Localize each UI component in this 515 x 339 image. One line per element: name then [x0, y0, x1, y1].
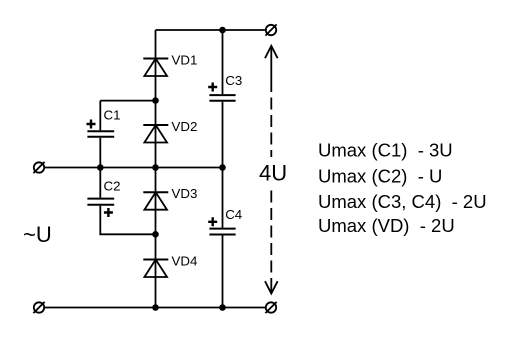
svg-text:VD4: VD4 [172, 253, 198, 268]
svg-text:Umax (C1) - 3U: Umax (C1) - 3U [318, 139, 453, 160]
svg-text:Umax (VD) - 2U: Umax (VD) - 2U [318, 215, 455, 236]
svg-text:C1: C1 [104, 108, 121, 123]
svg-text:4U: 4U [259, 161, 287, 186]
svg-text:C4: C4 [225, 207, 242, 222]
svg-text:C3: C3 [225, 73, 242, 88]
svg-text:Umax (C2) - U: Umax (C2) - U [318, 165, 442, 186]
svg-text:C2: C2 [104, 179, 121, 194]
svg-text:VD3: VD3 [172, 186, 198, 201]
svg-text:~U: ~U [23, 222, 52, 247]
svg-text:VD1: VD1 [172, 52, 198, 67]
svg-text:Umax (C3, C4) - 2U: Umax (C3, C4) - 2U [318, 191, 487, 212]
svg-text:VD2: VD2 [172, 119, 198, 134]
